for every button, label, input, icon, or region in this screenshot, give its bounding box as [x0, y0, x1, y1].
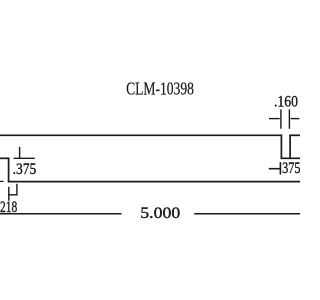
- wire notch left vertical: [280, 135, 282, 160]
- dimension .218 dim line vertical: [8, 187, 10, 201]
- wire notch right vertical: [289, 135, 291, 160]
- dimension 5.000 dim line right: [194, 213, 300, 215]
- wire notch bottom / right step line: [281, 157, 300, 159]
- svg-text:CLM-10398: CLM-10398: [126, 79, 194, 99]
- wire bottom-left extension segment: [0, 180, 4, 182]
- wire top profile line right segment: [289, 134, 300, 136]
- dimension .160 dim line right: [291, 118, 300, 120]
- dimension 5.000 dim line left: [0, 213, 122, 215]
- dimension .218 extension vertical: [16, 184, 18, 196]
- dimension .160 right extension line: [288, 109, 290, 128]
- svg-text:.160: .160: [274, 93, 298, 111]
- svg-text:5.000: 5.000: [140, 205, 180, 222]
- wire top profile line left segment: [0, 134, 282, 136]
- wire left vertical edge: [8, 158, 10, 183]
- dimension .375 left extension line horizontal: [14, 157, 35, 159]
- dimension .160 dim line left: [269, 118, 280, 120]
- dimension .375 right extension bar: [279, 162, 281, 174]
- svg-text:.375: .375: [13, 161, 37, 178]
- dimension .160 left extension line: [280, 109, 282, 128]
- svg-text:375: 375: [282, 160, 300, 177]
- wire bottom profile line: [8, 181, 300, 183]
- dimension .218 tick horizontal: [8, 194, 17, 196]
- dimension .375 right leader line: [269, 168, 281, 170]
- wire left step line: [0, 157, 9, 159]
- dimension .375 left dim line vertical: [19, 147, 21, 158]
